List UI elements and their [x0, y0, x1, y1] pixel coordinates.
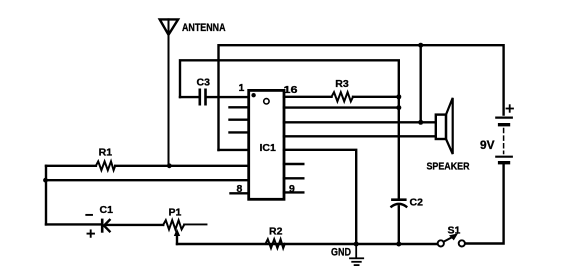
wire speaker drop vertical: [420, 45, 422, 122]
resistor R3: [284, 96, 332, 98]
wire pin1 row through C3: [180, 96, 198, 98]
node speaker top junction: [418, 120, 423, 125]
pin1 index dot: [251, 93, 255, 97]
wire left bus: [45, 166, 47, 225]
resistor R1: [46, 165, 96, 167]
wire pin15 row: [284, 106, 399, 108]
battery B1: [496, 116, 512, 118]
node rail1/speaker vertical: [418, 43, 423, 48]
wire top rail 2: [180, 60, 399, 97]
svg-text:S1: S1: [448, 225, 461, 237]
svg-text:C3: C3: [197, 77, 211, 89]
node GND junction: [354, 242, 359, 247]
battery plus sign: [507, 105, 514, 112]
op IC1 body: [249, 90, 284, 199]
svg-text:P1: P1: [169, 207, 182, 219]
wire long row to pin7: [46, 179, 249, 181]
capacitor C1: [46, 223, 100, 225]
wire bottom rail left: [177, 243, 437, 245]
node R3/rail2 junction: [396, 94, 401, 99]
svg-text:IC1: IC1: [260, 142, 277, 154]
speaker: [436, 115, 446, 139]
P1 wiper arrow: [176, 234, 178, 245]
svg-text:16: 16: [284, 84, 298, 96]
node C2/rail junction: [396, 242, 401, 247]
svg-text:R3: R3: [335, 78, 349, 90]
antenna: [160, 19, 178, 34]
node pin15/vertical junction: [396, 105, 401, 110]
left NC pin stubs: [230, 106, 249, 108]
svg-text:9V: 9V: [480, 140, 495, 152]
svg-text:R2: R2: [269, 226, 283, 238]
node left bus junction: [43, 178, 48, 183]
wire speaker top row: [284, 121, 436, 123]
svg-text:9: 9: [289, 183, 295, 195]
switch S1: [438, 240, 444, 246]
svg-text:SPEAKER: SPEAKER: [427, 161, 470, 173]
wire top rail 1: [219, 45, 504, 150]
capacitor C3: [200, 90, 206, 104]
ground: [350, 244, 363, 265]
svg-text:8: 8: [237, 183, 243, 195]
wire battery bottom to rail: [465, 164, 504, 243]
svg-text:C2: C2: [410, 197, 424, 209]
wire P1 right stub: [184, 223, 206, 225]
pin1 index circle: [264, 99, 269, 104]
svg-text:GND: GND: [331, 247, 351, 259]
capacitor C2: [392, 198, 405, 201]
resistor R2: [266, 239, 285, 248]
wire antenna vertical: [168, 19, 170, 165]
svg-text:ANTENNA: ANTENNA: [182, 22, 226, 34]
C1 plus sign: [88, 230, 95, 236]
right NC pin stubs: [284, 163, 303, 165]
svg-text:R1: R1: [99, 147, 113, 159]
svg-text:C1: C1: [100, 204, 114, 216]
svg-text:1: 1: [239, 82, 245, 94]
wire C2 vertical: [398, 97, 400, 199]
wire speaker bottom row: [284, 135, 436, 137]
node antenna/R1 junction: [167, 163, 172, 168]
potentiometer P1: [163, 220, 184, 229]
wire pin row to GND corner: [284, 150, 356, 244]
wire into pin5 row: [219, 149, 249, 151]
C1 minus sign: [86, 214, 92, 216]
